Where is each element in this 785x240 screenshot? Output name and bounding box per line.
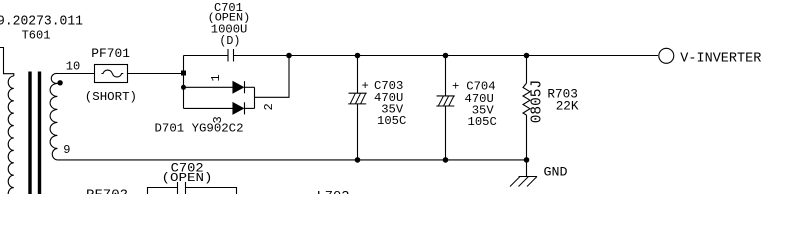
svg-text:105C: 105C [468,115,497,129]
wire C703 bottom lead [357,104,359,160]
junction dot node A diode1 [181,85,186,90]
wire R703 bottom lead [526,115,528,160]
junction dot C703 top [355,53,361,59]
svg-text:+: + [362,79,369,93]
svg-text:(OPEN): (OPEN) [162,172,213,185]
wire diode2 cathode to bar [245,107,255,109]
svg-text:PF702: PF702 [86,187,128,194]
ground symbol slash 2 [519,177,529,187]
capacitor C703 hatched plate [348,93,366,104]
lower section box edge [148,188,237,195]
capacitor C701 right plate [233,49,235,62]
transformer core bar 1 [28,72,31,195]
diode D701 second anode triangle [233,103,243,114]
wire diode output bar [254,87,256,108]
ground symbol bar [519,176,537,178]
junction dot C704 bottom [443,157,449,163]
junction dot C703 bottom [355,157,361,163]
wire diode D701-2 branch [184,107,234,109]
transformer polarity dot [57,80,62,85]
svg-text:22K: 22K [556,99,579,114]
wire diode D701-1 branch [184,86,234,88]
svg-text:0805J: 0805J [530,80,546,124]
diode D701 first anode triangle [233,82,243,93]
wire pin10 to fuse [57,73,95,75]
capacitor C704 hatched plate [436,96,454,106]
svg-text:10: 10 [66,60,80,74]
svg-text:L702: L702 [317,189,350,194]
svg-text:9.20273.011: 9.20273.011 [0,14,83,29]
transformer T601 secondary winding [50,83,57,148]
ground symbol slash 3 [527,177,537,187]
wire R703 top lead [526,56,528,84]
svg-text:PF701: PF701 [91,46,130,61]
wire fuse to node A [128,73,184,75]
wire diode1 cathode to bar [245,86,255,88]
resistor R703 zigzag [523,83,530,115]
bottom ground rail [58,159,527,161]
capacitor C703 top plate [349,92,367,94]
diode D701 first cathode bar [244,81,246,93]
junction square node A [181,71,186,76]
transformer T601 primary winding [8,76,14,200]
label C702 white mask [160,162,214,183]
capacitor C701 left plate [227,49,229,62]
wire top branch to C701 [184,55,229,57]
wire diode output stub [255,56,290,98]
junction dot GND node [524,157,530,163]
svg-text:1: 1 [209,74,223,81]
svg-text:GND: GND [544,165,568,180]
wire C704 bottom lead [445,106,447,160]
terminal V-INVERTER circle [659,48,674,63]
svg-text:+: + [452,80,459,94]
capacitor C704 top plate [437,95,455,97]
C702 lead wire 2 [185,181,187,194]
wire GND lead [526,160,528,177]
main output rail [289,55,658,57]
svg-text:T601: T601 [22,29,51,43]
svg-text:(D): (D) [219,34,240,48]
transformer T601 secondary winding top exit [51,73,57,83]
svg-text:V-INVERTER: V-INVERTER [680,52,761,67]
svg-text:105C: 105C [377,114,406,128]
wire C701 to node B [234,55,290,57]
junction dot R703 top [524,53,530,59]
node A left bus vertical [183,56,185,109]
transformer T601 primary winding lead [0,48,14,77]
svg-text:9: 9 [63,143,70,157]
fuse PF701 body [95,65,128,83]
svg-text:D701 YG902C2: D701 YG902C2 [155,122,244,136]
wire C703 top lead [357,56,359,94]
svg-text:(SHORT): (SHORT) [85,91,137,104]
transformer core bar 2 [38,72,41,195]
junction dot node B [286,53,292,59]
C702 lead wire 1 [177,181,179,194]
junction dot C704 top [443,53,449,59]
ground symbol slash 1 [510,177,520,187]
svg-text:2: 2 [262,103,276,110]
wire C704 top lead [445,56,447,96]
transformer T601 secondary winding bottom exit [52,148,58,160]
diode D701 second cathode bar [244,102,246,114]
fuse PF701 sine element [101,70,123,77]
